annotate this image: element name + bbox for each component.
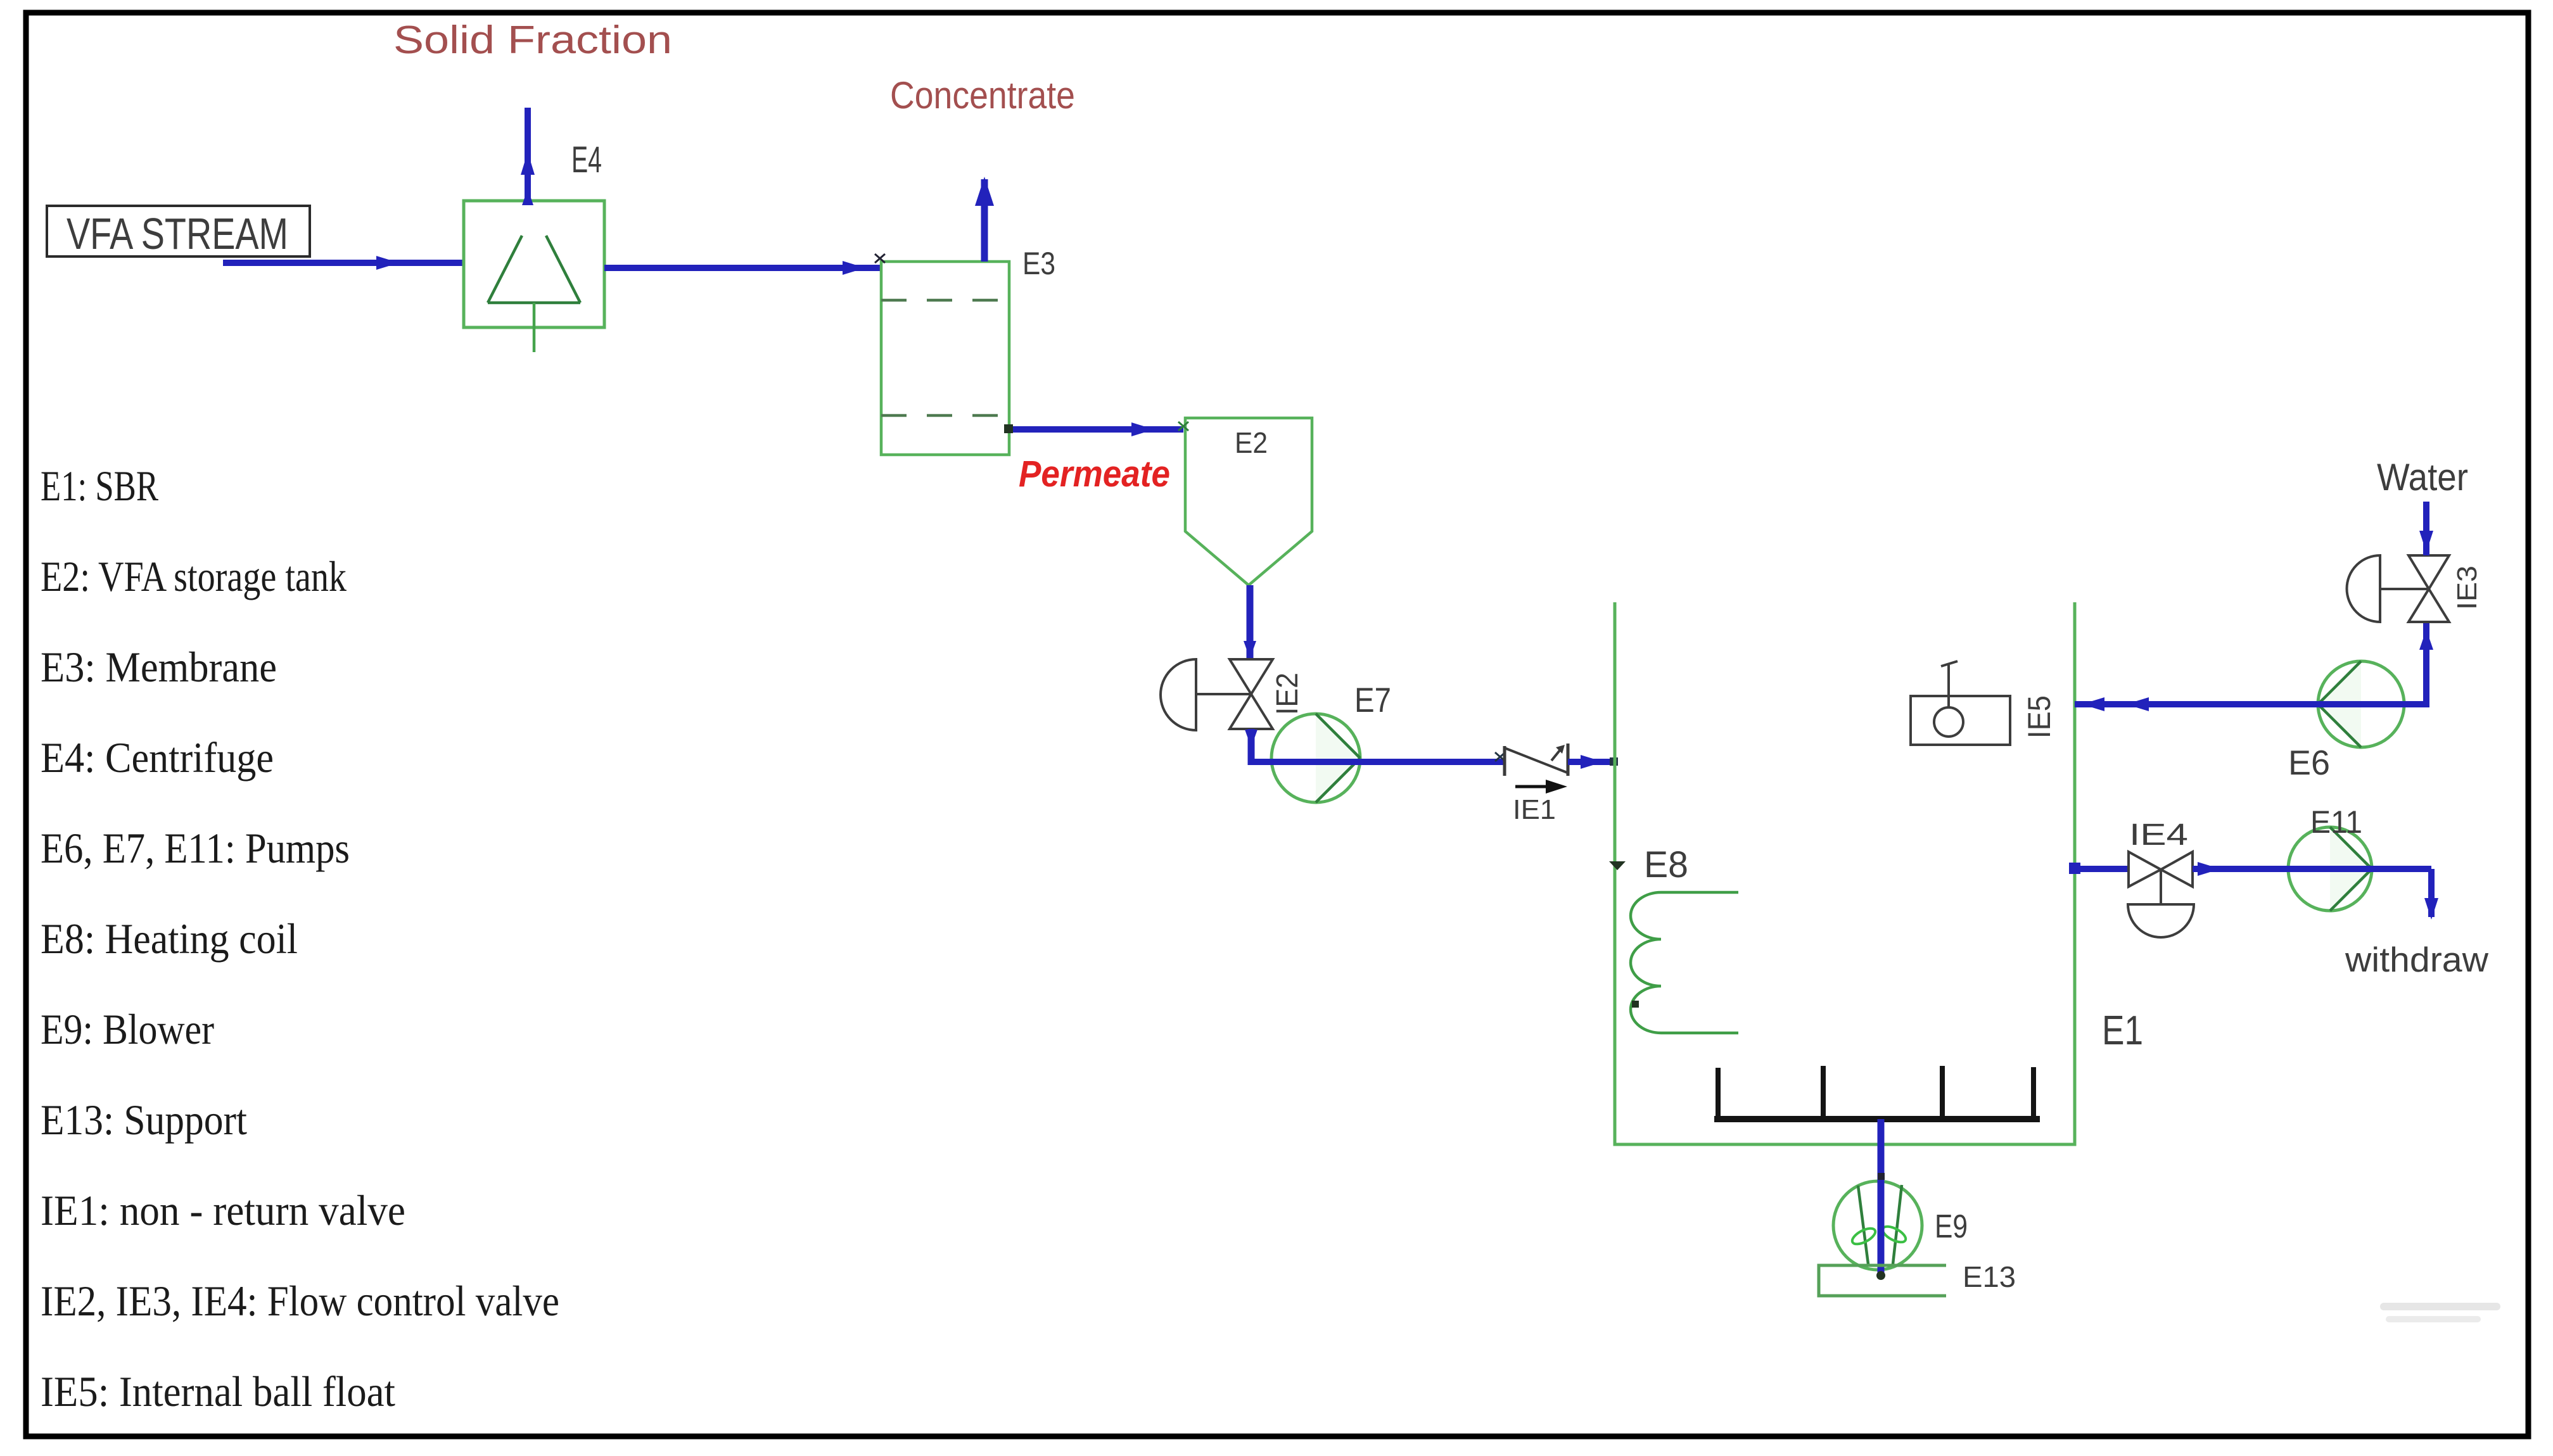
wire VFA STREAM to E4 [223,256,464,270]
blower E9 [1833,1181,1922,1270]
label IE5 [2021,695,2057,738]
svg-text:E4: Centrifuge: E4: Centrifuge [41,733,274,782]
svg-text:E3: Membrane: E3: Membrane [41,643,277,691]
svg-text:E11: E11 [2310,804,2362,840]
wire IE2 to E7 [1245,729,1505,765]
svg-text:IE5: Internal ball float: IE5: Internal ball float [41,1367,395,1415]
svg-text:IE5: IE5 [2021,695,2057,738]
label IE4 [2129,818,2188,852]
svg-text:E2: VFA storage tank: E2: VFA storage tank [41,552,347,600]
wire E4 to Solid Fraction [521,108,535,205]
svg-text:IE3: IE3 [2452,566,2483,610]
svg-text:E2: E2 [1235,426,1268,459]
svg-text:E9: E9 [1935,1208,1968,1245]
wire IE4 to E11 to withdraw [2193,862,2438,920]
svg-text:E3: E3 [1022,246,1055,281]
node Concentrate [890,74,1075,117]
svg-text:E13: E13 [1963,1260,2016,1293]
svg-text:Concentrate: Concentrate [890,74,1075,117]
scan artifact [2380,1303,2500,1322]
svg-text:E8: Heating coil: E8: Heating coil [41,915,298,963]
centrifuge E4 [464,201,604,352]
label E6 [2288,743,2330,782]
non-return valve IE1 [1495,744,1568,794]
pump E11 [2288,827,2372,911]
label E4 [571,139,602,180]
legend [41,462,559,1415]
label IE3 [2452,566,2483,610]
pump E7 [1271,714,1360,802]
wire E2 to IE2 [1244,585,1256,662]
svg-text:E8: E8 [1644,844,1688,885]
node Permeate [1019,453,1170,495]
label IE2 [1271,673,1304,715]
label E9 [1935,1208,1968,1245]
aerator sparger [1714,1066,2040,1119]
support E13 [1819,1265,1946,1296]
label E7 [1354,680,1391,719]
wire Water inlet [2419,502,2433,555]
heating coil E8 [1609,861,1738,1033]
svg-text:E4: E4 [571,139,602,180]
svg-text:Water: Water [2377,456,2468,498]
SBR tank E1 [1615,602,2075,1144]
svg-text:IE1: non - return valve: IE1: non - return valve [41,1186,405,1234]
label E3 [1022,246,1055,281]
flow control valve IE2 [1161,659,1273,730]
membrane E3 [881,262,1009,455]
svg-text:Solid Fraction: Solid Fraction [393,18,672,62]
svg-text:IE1: IE1 [1513,794,1556,825]
label E8 [1644,844,1688,885]
label IE1 [1513,794,1556,825]
svg-text:IE2: IE2 [1271,673,1304,715]
svg-text:Permeate: Permeate [1019,453,1170,495]
node Water [2377,456,2468,498]
svg-text:E1: E1 [2102,1007,2143,1053]
svg-text:withdraw: withdraw [2345,940,2488,979]
svg-text:E1: SBR: E1: SBR [41,462,158,510]
svg-text:E6, E7, E11: Pumps: E6, E7, E11: Pumps [41,824,350,872]
label E11 [2310,804,2362,840]
label E2 [1235,426,1268,459]
svg-text:E7: E7 [1354,680,1391,719]
wire E3 to E2 (Permeate) [1004,422,1183,436]
internal ball float IE5 [1911,661,2010,745]
flow control valve IE3 [2347,555,2450,622]
svg-text:VFA STREAM: VFA STREAM [67,209,288,258]
label E1 [2102,1007,2143,1053]
wire Water to E1 (through E6) [2075,622,2433,711]
pump E6 [2318,661,2404,747]
wire E1 to IE4 [2069,863,2129,874]
svg-text:E9: Blower: E9: Blower [41,1005,214,1053]
node withdraw [2345,940,2488,979]
wire E3 to Concentrate [975,177,994,262]
svg-text:E6: E6 [2288,743,2330,782]
wire E1 to E9 to E13 [1876,1119,1885,1280]
node Solid Fraction [393,18,672,62]
flow control valve IE4 [2128,852,2194,937]
node VFA STREAM [47,206,310,258]
svg-text:IE4: IE4 [2129,818,2188,852]
label E13 [1963,1260,2016,1293]
wire E4 to E3 [604,261,881,275]
svg-text:E13: Support: E13: Support [41,1096,247,1144]
VFA storage tank E2 [1178,418,1312,585]
wire IE1 to E1 [1568,755,1618,769]
junction at E3 inlet [875,254,885,263]
svg-text:IE2, IE3, IE4: Flow control va: IE2, IE3, IE4: Flow control valve [41,1277,559,1325]
